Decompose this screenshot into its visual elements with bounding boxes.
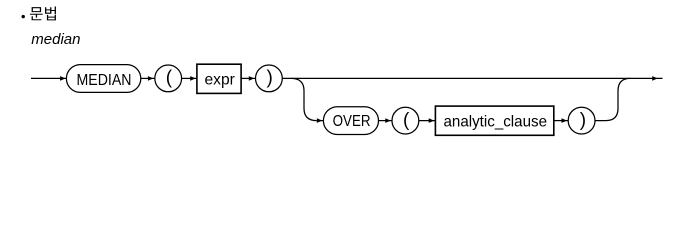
wire: arrowhead into ) bbox=[249, 76, 255, 81]
wire: MEDIAN to ( bbox=[141, 77, 155, 79]
svg-text:OVER: OVER bbox=[333, 113, 371, 130]
svg-text:analytic_clause: analytic_clause bbox=[444, 114, 548, 131]
wire: branch down to OVER row bbox=[292, 78, 316, 120]
wire: expr to ) bbox=[241, 77, 255, 79]
node expr (box) bbox=[197, 64, 241, 93]
wire: arrowhead into ( bbox=[148, 76, 154, 81]
wire: arrowhead into ( bbox=[385, 118, 391, 123]
svg-text:expr: expr bbox=[205, 72, 236, 89]
bullet bbox=[22, 15, 25, 18]
terminal ( (circle) bbox=[155, 65, 182, 92]
wire: main line to exit bbox=[282, 77, 662, 79]
svg-text:MEDIAN: MEDIAN bbox=[77, 72, 132, 89]
wire: analytic_clause to ) bbox=[554, 120, 568, 122]
wire: arrowhead into MEDIAN bbox=[60, 76, 66, 81]
node analytic_clause (box) bbox=[435, 106, 553, 135]
terminal ) (circle) bbox=[256, 65, 283, 92]
svg-text:): ) bbox=[267, 68, 273, 89]
wire: ( to analytic_clause bbox=[419, 120, 436, 122]
wire: OVER to ( bbox=[379, 120, 393, 122]
wire: ( to expr bbox=[182, 77, 197, 79]
terminal OVER (stadium) bbox=[323, 107, 378, 135]
terminal ( (circle, lower) bbox=[392, 107, 419, 134]
svg-text:median: median bbox=[31, 31, 80, 48]
wire: arrowhead into ) bbox=[562, 118, 568, 123]
wire: arrowhead into analytic_clause bbox=[429, 118, 435, 123]
wire: rejoin up to main line bbox=[595, 78, 630, 120]
terminal MEDIAN (stadium) bbox=[66, 65, 140, 93]
svg-text:): ) bbox=[580, 110, 586, 131]
svg-text:(: ( bbox=[166, 68, 173, 89]
wire: exit arrowhead bbox=[652, 76, 658, 81]
wire: arrowhead into expr bbox=[190, 76, 196, 81]
svg-text:(: ( bbox=[403, 110, 410, 131]
wire: arrowhead into OVER bbox=[316, 120, 323, 122]
wire: entry line bbox=[31, 77, 66, 79]
label 문법 (Korean "Syntax") bbox=[30, 7, 56, 21]
terminal ) (circle, lower) bbox=[568, 107, 595, 134]
